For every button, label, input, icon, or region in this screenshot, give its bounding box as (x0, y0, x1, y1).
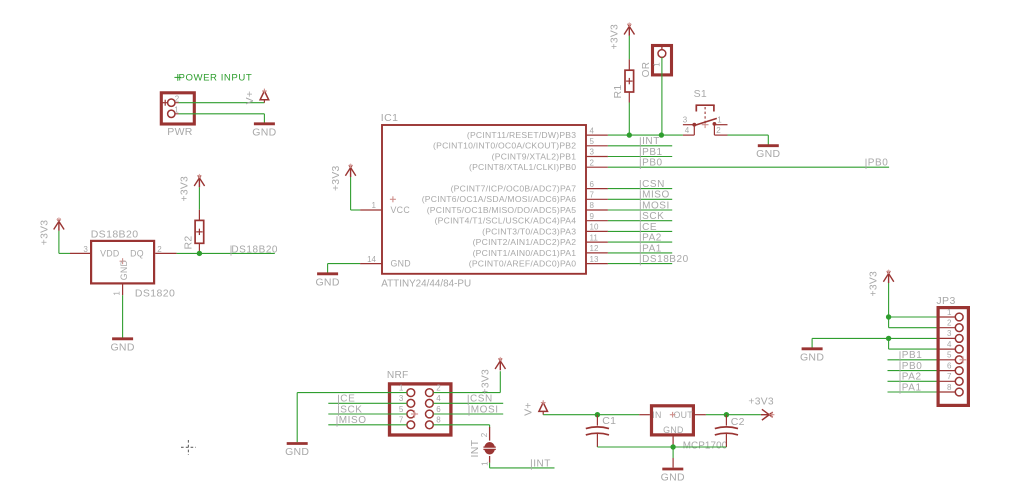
svg-text:5: 5 (590, 137, 595, 146)
sheet origin cross (181, 440, 196, 455)
net label SCK (640, 211, 664, 222)
pin 3 JP3 (937, 329, 964, 342)
wire net SCK (pin 9) (608, 220, 672, 222)
svg-text:MOSI: MOSI (642, 200, 670, 211)
net label PA2 (JP3) (900, 372, 922, 383)
wire capacitor ground bus (597, 446, 726, 448)
svg-text:INT: INT (469, 439, 481, 457)
svg-text:OR: OR (641, 62, 652, 78)
pin 9 (PCINT4/T1/SCL/USCK/ADC4)PA4 (435, 212, 608, 226)
svg-text:GND: GND (252, 126, 276, 138)
svg-text:OUT: OUT (674, 410, 694, 420)
wire DS18B20 pin1 to GND (122, 295, 124, 338)
pin 2 JP3 (937, 319, 964, 332)
ground (DS18B20) (110, 339, 134, 354)
svg-text:6: 6 (436, 405, 441, 414)
svg-text:CSN: CSN (642, 179, 665, 190)
capacitor C2 (715, 415, 745, 447)
svg-text:(PCINT2/AIN1/ADC2)PA2: (PCINT2/AIN1/ADC2)PA2 (473, 237, 577, 247)
wire NRF pin2 to +3V3 (433, 371, 500, 392)
jumper INT (469, 427, 496, 466)
svg-text:7: 7 (947, 372, 952, 381)
pin 2 NRF right (426, 383, 442, 396)
pin 2 (PCINT8/XTAL1/CLKI)PB0 (469, 158, 608, 172)
svg-text:1: 1 (947, 308, 952, 317)
supply V+ (regulator input) (522, 400, 547, 416)
wire net CE (NRF pin3) (328, 402, 407, 404)
pin 7 (PCINT6/OC1A/SDA/MOSI/ADC6)PA6 (422, 191, 608, 205)
wire net PB1 (pin 3) (608, 156, 672, 158)
pin 1 JP3 (937, 308, 964, 321)
svg-text:V+: V+ (244, 91, 256, 105)
pin 4 (PCINT11/RESET/DW)PB3 (467, 126, 608, 140)
wire to regulator ground (672, 447, 674, 458)
net label PA2 (640, 233, 662, 244)
svg-text:MCP1700: MCP1700 (683, 440, 728, 451)
svg-text:INT: INT (642, 136, 660, 147)
net label MOSI (469, 404, 499, 415)
node junction OR (659, 132, 664, 137)
svg-text:+3V3: +3V3 (869, 271, 880, 297)
svg-text:SCK: SCK (340, 404, 362, 415)
node junction JP3 +3V3 (886, 314, 891, 319)
net label PA1 (JP3) (900, 382, 922, 393)
svg-text:3: 3 (683, 115, 688, 124)
svg-text:GND: GND (391, 259, 411, 269)
wire net MISO (pin 7) (608, 198, 672, 200)
svg-text:CSN: CSN (470, 394, 493, 405)
svg-text:PB1: PB1 (642, 147, 663, 158)
wire V+ to C1/IN (543, 414, 639, 416)
wire NRF pin8 to INT jumper (433, 425, 489, 428)
svg-text:PB1: PB1 (902, 350, 923, 361)
wire INT jumper to label (490, 463, 555, 468)
svg-text:5: 5 (947, 351, 952, 360)
node DS18B20 net junction (197, 251, 202, 256)
svg-text:GND: GND (661, 472, 685, 484)
ground (power input) (252, 123, 276, 139)
wire net MOSI (pin 8) (608, 209, 672, 211)
net label PB1 (640, 147, 662, 158)
svg-text:(PCINT7/ICP/OC0B/ADC7)PA7: (PCINT7/ICP/OC0B/ADC7)PA7 (451, 184, 577, 194)
svg-text:11: 11 (590, 233, 599, 242)
wire net SCK (NRF pin5) (328, 413, 407, 415)
pin 14 GND (360, 255, 381, 264)
wire PWR pin1 to GND (179, 114, 265, 123)
net label MISO (640, 190, 670, 201)
svg-text:(PCINT10/INT0/OC0A/CKOUT)PB2: (PCINT10/INT0/OC0A/CKOUT)PB2 (433, 141, 576, 151)
svg-text:(PCINT6/OC1A/SDA/MOSI/ADC6)PA6: (PCINT6/OC1A/SDA/MOSI/ADC6)PA6 (422, 194, 577, 204)
svg-text:1: 1 (399, 383, 404, 392)
pin 4 NRF right (426, 394, 442, 407)
resistor R1 (612, 59, 633, 102)
svg-text:(PCINT4/T1/SCL/USCK/ADC4)PA4: (PCINT4/T1/SCL/USCK/ADC4)PA4 (435, 216, 577, 226)
svg-text:GND: GND (756, 148, 780, 160)
pin 5 NRF left (399, 405, 415, 418)
svg-text:DS18B20: DS18B20 (642, 254, 689, 265)
svg-text:MISO: MISO (642, 190, 670, 201)
ground (NRF) (285, 444, 309, 459)
svg-text:4: 4 (685, 126, 690, 135)
svg-text:2: 2 (436, 383, 441, 392)
svg-text:DS1820: DS1820 (135, 288, 175, 300)
supply +3V3 (IC1 VCC) (331, 164, 356, 210)
svg-text:8: 8 (947, 383, 952, 392)
svg-text:9: 9 (590, 212, 595, 221)
regulator U MCP1700 (639, 406, 728, 452)
pin 8 (PCINT5/OC1B/MISO/DO/ADC5)PA5 (427, 201, 608, 215)
svg-text:GND: GND (119, 260, 129, 280)
svg-text:PA1: PA1 (902, 382, 922, 393)
svg-text:2: 2 (947, 319, 952, 328)
pin 4 JP3 (937, 340, 964, 353)
ground (regulator) (661, 458, 685, 484)
node junction C2 (724, 412, 729, 417)
svg-text:JP3: JP3 (936, 295, 955, 307)
wire net DS18B20 (pin 13) (608, 263, 672, 265)
net label INT (bottom) (531, 458, 551, 469)
svg-text:+3V3: +3V3 (180, 176, 191, 202)
svg-text:+3V3: +3V3 (331, 165, 342, 191)
svg-text:R2: R2 (182, 235, 194, 249)
net label PB1 (JP3) (900, 350, 922, 361)
connector OR (641, 46, 672, 78)
svg-text:13: 13 (590, 255, 599, 264)
wire +3V3 to DS18B20 VDD (59, 252, 70, 254)
svg-text:DQ: DQ (130, 248, 144, 258)
pin 1 VCC (360, 201, 381, 210)
svg-text:+3V3: +3V3 (748, 397, 774, 408)
svg-text:8: 8 (436, 416, 441, 425)
net label CE (640, 222, 657, 233)
pin 7 NRF left (399, 416, 415, 429)
pin 6 (PCINT7/ICP/OC0B/ADC7)PA7 (451, 180, 608, 194)
wire net PB1 (JP3 pin5) (888, 359, 937, 361)
node junction R1 (627, 132, 632, 137)
wire OR pin to net (661, 57, 663, 135)
net label SCK (339, 404, 363, 415)
svg-text:MISO: MISO (339, 415, 367, 426)
wire net PB0 (pin 2, long) (608, 166, 889, 168)
pin 13 (PCINT0/AREF/ADC0)PA0 (469, 255, 608, 269)
net label CSN (640, 179, 665, 190)
wire net PA1 (JP3 pin8) (888, 391, 937, 393)
pin 7 JP3 (937, 372, 964, 385)
connector NRF body (387, 370, 451, 435)
svg-text:(PCINT5/OC1B/MISO/DO/ADC5)PA5: (PCINT5/OC1B/MISO/DO/ADC5)PA5 (427, 205, 577, 215)
svg-text:PB0: PB0 (902, 361, 923, 372)
pin 3 (PCINT9/XTAL2)PB1 (492, 148, 608, 162)
wire net CE (pin 10) (608, 230, 672, 232)
pin 6 NRF right (426, 405, 442, 418)
svg-text:7: 7 (399, 416, 404, 425)
svg-text:V+: V+ (522, 402, 534, 416)
svg-text:1: 1 (372, 201, 377, 210)
svg-text:1: 1 (113, 291, 122, 296)
svg-text:6: 6 (947, 361, 952, 370)
origin cross JP3 pin5 (960, 356, 967, 363)
svg-text:(PCINT9/XTAL2)PB1: (PCINT9/XTAL2)PB1 (492, 151, 577, 161)
supply +3V3 (regulator output, right arrow) (748, 397, 774, 421)
wire OUT to C2/+3V3 (706, 414, 761, 416)
svg-text:1: 1 (174, 105, 179, 114)
net label PA1 (640, 243, 662, 254)
node junction C1 (595, 412, 600, 417)
svg-text:PWR: PWR (167, 126, 193, 138)
capacitor C1 (586, 415, 617, 447)
svg-text:PA2: PA2 (642, 233, 662, 244)
svg-text:(PCINT8/XTAL1/CLKI)PB0: (PCINT8/XTAL1/CLKI)PB0 (469, 162, 576, 172)
svg-text:SCK: SCK (642, 211, 664, 222)
connector PWR (161, 93, 194, 138)
sensor U-DS18B20 (70, 228, 177, 299)
svg-text:1: 1 (717, 115, 722, 124)
supply +3V3 (JP3) (869, 270, 894, 317)
net label MISO (337, 415, 367, 426)
svg-text:DS18B20: DS18B20 (91, 228, 139, 240)
pin 8 NRF right (426, 416, 442, 429)
svg-text:ATTINY24/44/84-PU: ATTINY24/44/84-PU (381, 278, 471, 289)
wire net PA1 (pin 12) (608, 252, 672, 254)
origin cross NRF pin5 (411, 410, 418, 417)
svg-text:2: 2 (590, 158, 595, 167)
svg-text:6: 6 (590, 180, 595, 189)
svg-text:IN: IN (652, 410, 661, 420)
svg-text:PA2: PA2 (902, 372, 922, 383)
svg-text:+3V3: +3V3 (481, 369, 492, 395)
svg-text:VCC: VCC (391, 205, 411, 215)
svg-text:7: 7 (590, 191, 595, 200)
svg-text:C2: C2 (731, 416, 745, 428)
switch S1 (683, 88, 728, 135)
net label MOSI (640, 200, 670, 211)
svg-text:GND: GND (800, 351, 824, 363)
wire PWR pin2 to V+ (179, 102, 265, 104)
wire net MISO (NRF pin7) (328, 424, 407, 426)
wire +3V3 to VCC (351, 209, 361, 211)
svg-text:4: 4 (436, 394, 441, 403)
svg-text:PA1: PA1 (642, 243, 662, 254)
pin 12 (PCINT1/AIN0/ADC1)PA1 (473, 244, 608, 258)
svg-text:12: 12 (590, 244, 599, 253)
svg-text:NRF: NRF (387, 370, 409, 381)
svg-text:8: 8 (590, 201, 595, 210)
svg-text:2: 2 (716, 126, 721, 135)
net label DS18B20 (640, 254, 688, 265)
net label CE (339, 394, 356, 405)
wire net PA2 (pin 11) (608, 241, 672, 243)
wire R1 to net (628, 103, 630, 136)
svg-text:POWER INPUT: POWER INPUT (179, 72, 253, 83)
svg-text:3: 3 (947, 329, 952, 338)
svg-text:+3V3: +3V3 (40, 220, 51, 246)
svg-text:GND: GND (110, 341, 134, 353)
pin 11 (PCINT2/AIN1/ADC2)PA2 (473, 233, 608, 247)
pin 10 (PCINT3/T0/ADC3)PA3 (482, 223, 608, 237)
svg-text:3: 3 (590, 148, 595, 157)
svg-text:5: 5 (399, 405, 404, 414)
svg-text:VDD: VDD (100, 248, 119, 258)
pin 8 JP3 (937, 383, 964, 396)
label POWER INPUT (174, 72, 252, 83)
pin 1 NRF left (399, 383, 415, 396)
supply +3V3 (R1) (610, 22, 635, 59)
svg-text:2: 2 (175, 94, 180, 103)
svg-text:4: 4 (590, 126, 595, 135)
wire net CSN (NRF pin4) (433, 402, 503, 404)
supply +3V3 (DS18B20) (40, 217, 65, 253)
svg-text:R1: R1 (612, 84, 624, 98)
svg-text:2: 2 (157, 245, 162, 254)
svg-text:CE: CE (642, 222, 657, 233)
node junction regulator GND (670, 444, 675, 449)
ic U IC1 ATTINY24/44/84-PU body (381, 112, 586, 289)
svg-text:IC1: IC1 (381, 112, 399, 124)
wire GND to JP3 pins 3,4 (812, 338, 936, 349)
wire net PA2 (JP3 pin7) (888, 380, 937, 382)
supply +3V3 (NRF) (481, 357, 506, 395)
svg-text:(PCINT0/AREF/ADC0)PA0: (PCINT0/AREF/ADC0)PA0 (469, 259, 577, 269)
svg-text:C1: C1 (602, 415, 616, 427)
svg-text:1: 1 (653, 62, 662, 67)
ground (JP3) (800, 349, 824, 364)
wire DQ to DS18B20 label (177, 252, 275, 254)
ground (S1) (756, 146, 780, 161)
svg-text:3: 3 (83, 245, 88, 254)
svg-text:S1: S1 (694, 88, 707, 100)
net label INT (640, 136, 660, 147)
net label PB0 left (640, 158, 662, 169)
svg-text:CE: CE (340, 394, 355, 405)
wire net INT (pin 5) (608, 145, 672, 147)
pin 5 (PCINT10/INT0/OC0A/CKOUT)PB2 (433, 137, 608, 151)
svg-text:GND: GND (315, 276, 339, 288)
svg-text:14: 14 (367, 255, 376, 264)
svg-text:1: 1 (481, 461, 490, 466)
wire NRF pin1 to GND (297, 393, 407, 443)
svg-text:MOSI: MOSI (471, 404, 499, 415)
wire GND pin14 (328, 264, 361, 273)
wire S1 to GND (728, 135, 769, 144)
wire PB3 net (pin 4 row) (608, 134, 683, 136)
pin 6 JP3 (937, 361, 964, 374)
supply V+ (power input) (244, 89, 269, 105)
net label PB0 (JP3) (900, 361, 922, 372)
pin 3 NRF left (399, 394, 415, 407)
connector JP3 body (936, 295, 968, 405)
svg-text:3: 3 (399, 394, 404, 403)
resistor R2 (182, 210, 203, 254)
net label DS18B20 (231, 245, 278, 256)
wire net CSN (pin 6) (608, 188, 672, 190)
svg-text:(PCINT11/RESET/DW)PB3: (PCINT11/RESET/DW)PB3 (467, 130, 576, 140)
svg-text:INT: INT (533, 458, 551, 469)
svg-text:(PCINT3/T0/ADC3)PA3: (PCINT3/T0/ADC3)PA3 (482, 226, 576, 236)
net label PB0 right (866, 158, 888, 169)
wire net MOSI (NRF pin6) (433, 413, 503, 415)
ground (IC1) (315, 274, 339, 289)
svg-text:PB0: PB0 (642, 158, 663, 169)
svg-text:2: 2 (480, 432, 489, 437)
svg-text:DS18B20: DS18B20 (231, 245, 278, 256)
wire +3V3 to JP3 pins 1,2 (889, 317, 937, 328)
wire net PB0 (JP3 pin6) (888, 370, 937, 372)
node junction JP3 GND (886, 336, 891, 341)
pin 5 JP3 (937, 351, 964, 364)
net label CSN (468, 394, 493, 405)
svg-text:+3V3: +3V3 (610, 24, 621, 50)
svg-text:10: 10 (590, 223, 599, 232)
svg-text:4: 4 (947, 340, 952, 349)
svg-text:PB0: PB0 (868, 158, 889, 169)
svg-text:(PCINT1/AIN0/ADC1)PA1: (PCINT1/AIN0/ADC1)PA1 (473, 248, 577, 258)
svg-text:GND: GND (663, 425, 683, 435)
svg-text:GND: GND (285, 446, 309, 458)
supply +3V3 (R2) (180, 174, 205, 210)
